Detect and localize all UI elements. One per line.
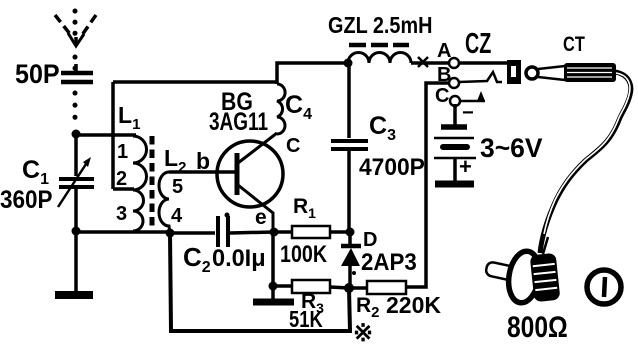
wire A to socket [459, 61, 509, 65]
capacitor C2 wire left [170, 231, 215, 235]
label CT [563, 32, 585, 55]
svg-text:※: ※ [353, 320, 373, 347]
coil C4 [277, 84, 285, 134]
svg-text:360P: 360P [0, 186, 53, 214]
battery top lead [453, 104, 457, 125]
X mark [418, 57, 428, 67]
svg-text:220K: 220K [386, 292, 441, 318]
cord [540, 72, 631, 253]
transistor base bar [235, 153, 240, 195]
svg-text:C: C [286, 135, 300, 157]
plug body [564, 63, 616, 82]
label 100K [280, 240, 327, 267]
socket body [507, 60, 521, 84]
svg-text:4: 4 [171, 205, 183, 227]
capacitor C3 plates [331, 139, 368, 143]
dotted lead below 50P [73, 93, 78, 128]
capacitor C1 arrow [58, 161, 88, 207]
ground (emitter) [253, 299, 294, 306]
svg-text:GZL 2.5mH: GZL 2.5mH [328, 11, 432, 38]
svg-text:CT: CT [563, 32, 585, 55]
label 2AP3 [361, 248, 417, 275]
svg-text:3~6V: 3~6V [480, 133, 543, 163]
wire L1 left bus [111, 82, 115, 189]
svg-text:1: 1 [117, 141, 128, 163]
label 0.01u [212, 245, 266, 272]
capacitor 50P bottom plate [61, 80, 93, 85]
node R3 left [269, 282, 278, 291]
svg-text:4700P: 4700P [359, 153, 425, 180]
earphone body ring [505, 249, 543, 305]
plug tip ring [526, 67, 538, 79]
transistor collector line [238, 133, 277, 163]
label 3AG11 [209, 107, 268, 135]
svg-text:51K: 51K [289, 307, 323, 332]
capacitor C3 lead bottom [347, 151, 351, 232]
battery bottom bar [435, 181, 474, 188]
wire C1 top to L1 tap1 [76, 133, 136, 137]
wire base [169, 170, 236, 174]
label 4700P [359, 153, 425, 180]
ground (left) [55, 291, 93, 299]
label 50P [15, 58, 60, 89]
resistor R1 [274, 230, 292, 234]
transistor Q1 circle [217, 141, 283, 207]
wire C4 top [277, 63, 348, 84]
svg-text:2: 2 [116, 168, 127, 190]
antenna arrowhead [68, 33, 84, 46]
svg-text:C: C [435, 85, 449, 107]
bottom wire [170, 233, 350, 331]
capacitor C2 plates [216, 216, 220, 247]
wire to ground (emitter) [271, 286, 275, 300]
wire L1 tap2 stub [113, 187, 134, 191]
label 3~6V [480, 133, 543, 163]
battery plate short 2 [443, 144, 467, 150]
plug shaft [538, 66, 565, 69]
figure badge circle 1 [587, 270, 621, 304]
coil L1 [133, 136, 147, 231]
battery plate short 1 [441, 124, 467, 130]
svg-text:50P: 50P [15, 58, 60, 89]
node R1 right [346, 228, 355, 237]
capacitor C1 plates [59, 177, 94, 181]
wire B down to R2 [406, 83, 449, 287]
antenna dashed V right [82, 15, 96, 35]
earphone hatched block [530, 253, 561, 302]
wire C1 bottom [74, 189, 78, 231]
capacitor 50P top plate [61, 71, 93, 76]
svg-text:b: b [196, 148, 210, 174]
svg-text:0.0Iμ: 0.0Iμ [212, 245, 266, 272]
antenna dotted lead top [73, 11, 78, 36]
wire bottom bus L1 [76, 230, 170, 234]
svg-text:e: e [255, 206, 267, 229]
contact B spring [459, 72, 502, 82]
node antenna/C1 top [72, 130, 81, 139]
svg-text:5: 5 [172, 176, 183, 198]
node C1 bottom [72, 227, 81, 236]
diode D cathode bar [341, 244, 361, 249]
antenna dashed V left [55, 15, 70, 34]
cord end second line [543, 237, 548, 254]
label 360P [0, 186, 53, 214]
wire top horizontal [113, 80, 277, 84]
battery plate long 1 [434, 137, 474, 140]
svg-text:2AP3: 2AP3 [361, 248, 417, 275]
wire to ground [74, 231, 78, 292]
resistor R3 [273, 284, 292, 288]
contact A circle [449, 58, 459, 68]
earphone nozzle [485, 261, 518, 281]
wire emitter down [271, 232, 275, 286]
label GZL 2.5mH [328, 11, 432, 38]
label BG [221, 87, 253, 115]
stub above 50P plate [74, 64, 78, 72]
choke GZL coil [348, 53, 411, 64]
antenna dots above cap [73, 57, 78, 69]
svg-text:+: + [459, 154, 472, 179]
small mark above C2 [225, 213, 230, 218]
diode D triangle [341, 248, 360, 266]
core dashed line [150, 136, 155, 230]
contact C triangle [477, 91, 485, 101]
label 51K [289, 307, 323, 332]
contact C tip wire [460, 100, 485, 103]
label 800ohm [507, 310, 568, 344]
node L2 bottom [166, 229, 175, 238]
svg-text:100K: 100K [280, 240, 327, 267]
node emitter [270, 228, 279, 237]
node R2/R3/diode [344, 283, 354, 293]
battery bottom lead [453, 158, 457, 181]
wire choke to A [411, 61, 449, 65]
transistor emitter line [238, 185, 273, 232]
svg-text:CZ: CZ [465, 28, 491, 60]
capacitor C3 lead top [347, 65, 351, 138]
capacitor C2 wire right [230, 232, 274, 233]
label CZ [465, 28, 491, 60]
node choke/C3 [344, 59, 353, 68]
contact C circle [450, 96, 460, 106]
contact B circle [449, 78, 459, 88]
svg-text:−: − [462, 102, 474, 124]
battery plate long 2 [434, 157, 476, 160]
svg-text:A: A [437, 40, 451, 62]
diode D lead [348, 232, 352, 245]
coil L2 [159, 172, 170, 233]
wire junction to C1 [74, 134, 78, 176]
resistor R2 [349, 286, 367, 290]
small dot near diode [352, 271, 356, 275]
choke GZL core dashes [349, 43, 409, 48]
svg-text:800Ω: 800Ω [507, 310, 568, 344]
svg-text:3AG11: 3AG11 [209, 107, 268, 135]
diode D lead bottom [348, 266, 352, 288]
svg-text:3: 3 [116, 203, 127, 225]
